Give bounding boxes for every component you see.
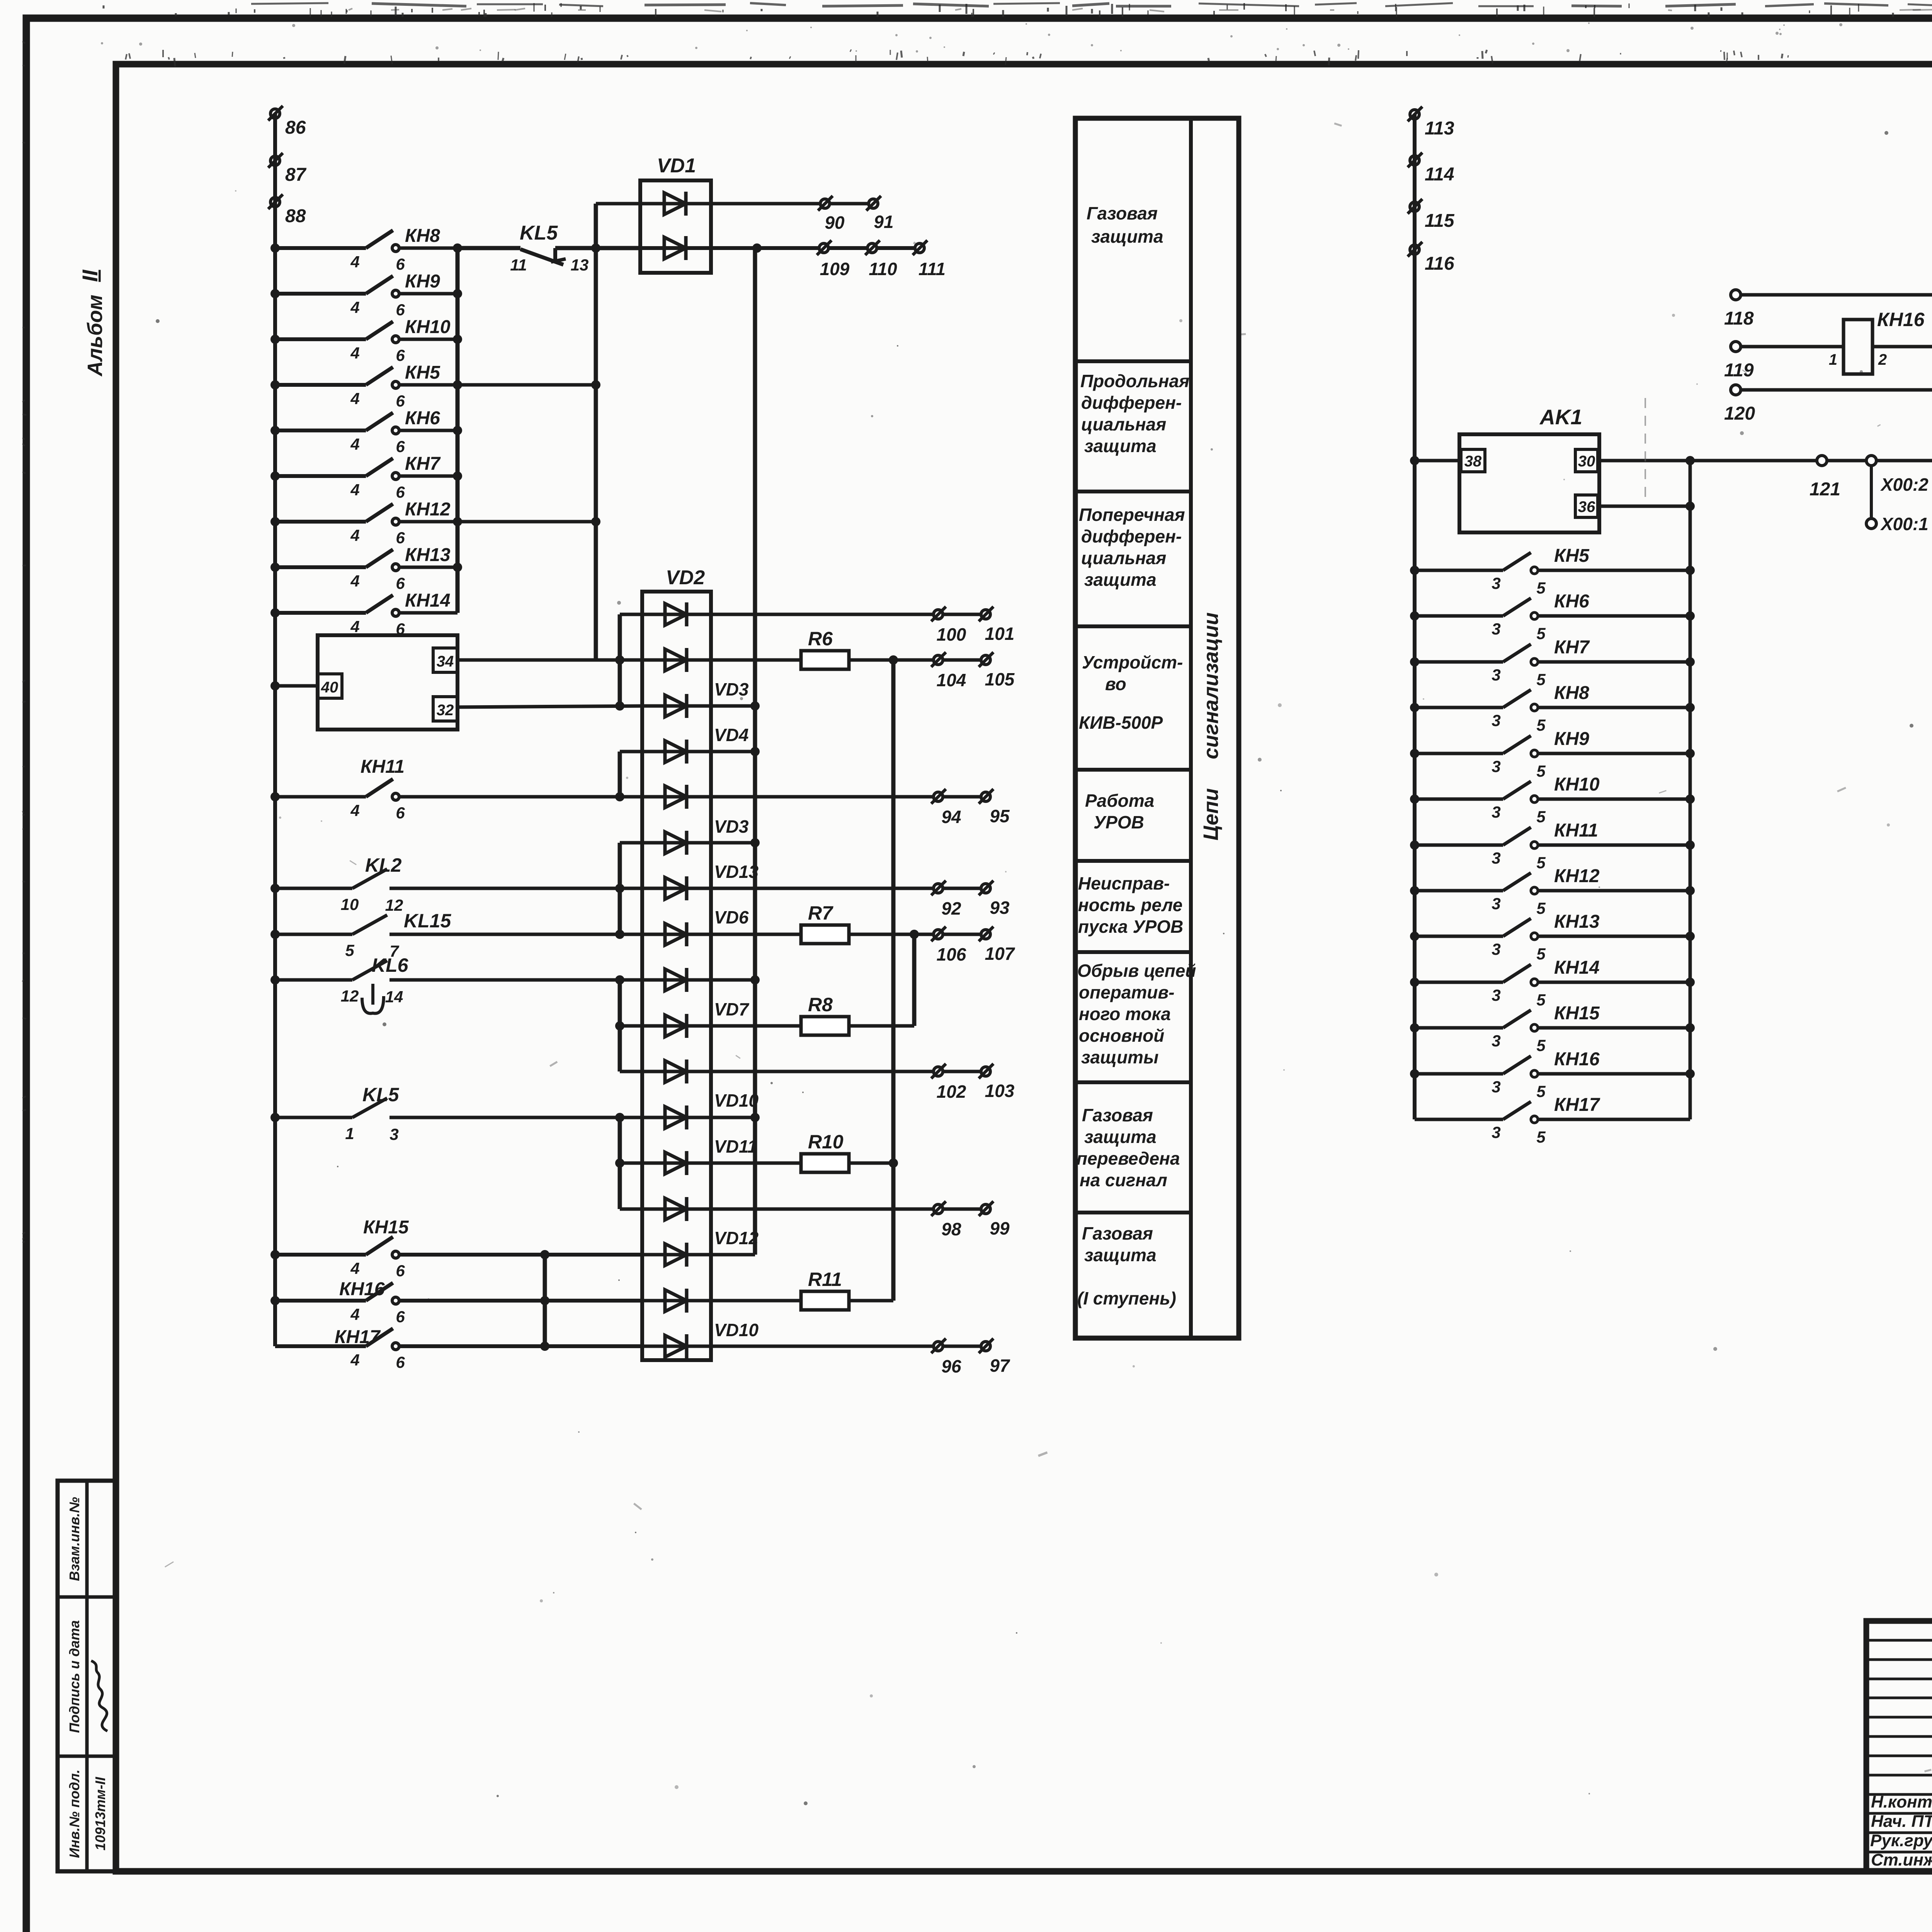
svg-text:38: 38 (1464, 453, 1482, 470)
svg-text:96: 96 (941, 1356, 961, 1376)
svg-text:88: 88 (285, 206, 306, 226)
svg-text:10913тм-II: 10913тм-II (92, 1777, 108, 1850)
svg-text:3: 3 (1492, 940, 1500, 958)
svg-text:114: 114 (1425, 164, 1454, 185)
svg-text:KL5: KL5 (520, 222, 558, 244)
svg-text:5: 5 (1536, 716, 1546, 734)
svg-text:6: 6 (396, 483, 405, 501)
svg-text:1: 1 (1829, 351, 1837, 368)
svg-text:3: 3 (1492, 711, 1500, 730)
svg-text:4: 4 (350, 1305, 359, 1323)
svg-text:KL2: KL2 (365, 854, 402, 876)
svg-text:KL6: KL6 (372, 954, 409, 976)
svg-text:Взам.инв.№: Взам.инв.№ (66, 1497, 82, 1581)
svg-text:Н.контр.: Н.контр. (1871, 1793, 1932, 1811)
svg-text:3: 3 (1492, 803, 1500, 821)
svg-text:4: 4 (350, 389, 359, 408)
svg-text:6: 6 (396, 346, 405, 364)
svg-text:115: 115 (1425, 211, 1455, 231)
svg-text:VD7: VD7 (714, 999, 750, 1019)
svg-text:КН17: КН17 (1554, 1095, 1600, 1115)
svg-text:переведена: переведена (1077, 1148, 1180, 1168)
svg-text:KL5: KL5 (362, 1084, 400, 1105)
svg-text:VD10: VD10 (714, 1090, 759, 1111)
svg-text:3: 3 (1492, 574, 1500, 592)
svg-text:Инв.№ подл.: Инв.№ подл. (66, 1769, 82, 1858)
svg-text:4: 4 (350, 801, 359, 820)
svg-text:Неисправ-: Неисправ- (1078, 873, 1170, 893)
svg-text:КН11: КН11 (1554, 820, 1598, 841)
svg-text:5: 5 (1536, 1036, 1546, 1054)
svg-text:4: 4 (350, 617, 359, 636)
svg-text:103: 103 (985, 1081, 1015, 1101)
svg-text:4: 4 (350, 1259, 359, 1277)
svg-text:защита: защита (1084, 436, 1156, 456)
svg-text:3: 3 (1492, 1123, 1500, 1141)
svg-text:3: 3 (1492, 666, 1500, 684)
svg-text:VD13: VD13 (714, 862, 759, 882)
svg-text:КН5: КН5 (1554, 546, 1590, 566)
svg-text:105: 105 (985, 669, 1015, 689)
svg-text:3: 3 (1492, 1032, 1500, 1050)
svg-text:109: 109 (820, 259, 850, 279)
svg-text:5: 5 (1536, 899, 1546, 917)
svg-text:5: 5 (1536, 1128, 1546, 1146)
svg-text:106: 106 (937, 944, 966, 964)
svg-text:6: 6 (396, 1353, 405, 1371)
svg-text:Устройст-: Устройст- (1082, 652, 1183, 672)
svg-text:КН11: КН11 (361, 757, 405, 777)
svg-text:12: 12 (341, 987, 359, 1005)
svg-text:3: 3 (389, 1125, 398, 1143)
svg-text:30: 30 (1578, 453, 1595, 470)
svg-text:118: 118 (1724, 308, 1754, 329)
svg-text:VD1: VD1 (657, 155, 696, 177)
svg-text:во: во (1105, 674, 1126, 694)
svg-text:5: 5 (1536, 854, 1546, 872)
svg-text:КН6: КН6 (405, 408, 440, 429)
svg-text:R11: R11 (808, 1269, 842, 1290)
svg-text:КН14: КН14 (1554, 957, 1600, 978)
svg-text:10: 10 (341, 895, 359, 913)
svg-text:32: 32 (437, 702, 454, 719)
svg-text:КН7: КН7 (1554, 637, 1590, 658)
svg-text:11: 11 (510, 256, 527, 274)
svg-text:98: 98 (941, 1219, 961, 1239)
svg-text:104: 104 (937, 670, 966, 690)
svg-text:КН9: КН9 (1554, 729, 1589, 749)
svg-text:110: 110 (869, 259, 897, 279)
svg-text:Подпись и дата: Подпись и дата (66, 1620, 82, 1733)
svg-text:4: 4 (350, 344, 359, 362)
svg-text:KL15: KL15 (404, 910, 451, 932)
svg-text:121: 121 (1810, 479, 1840, 500)
svg-text:4: 4 (350, 526, 359, 544)
svg-text:VD4: VD4 (714, 725, 748, 745)
svg-text:99: 99 (990, 1218, 1010, 1238)
svg-text:5: 5 (1536, 945, 1546, 963)
svg-text:КН15: КН15 (1554, 1003, 1600, 1024)
svg-text:Цепи сигнализации: Цепи сигнализации (1199, 612, 1223, 841)
svg-text:КН13: КН13 (1554, 912, 1600, 932)
svg-text:36: 36 (1578, 498, 1595, 515)
svg-text:защита: защита (1084, 1245, 1156, 1265)
svg-text:защиты: защиты (1081, 1047, 1158, 1067)
svg-text:100: 100 (937, 624, 966, 645)
svg-text:3: 3 (1492, 620, 1500, 638)
svg-text:КН17: КН17 (335, 1327, 381, 1347)
svg-text:34: 34 (437, 653, 454, 670)
svg-text:R10: R10 (808, 1131, 844, 1153)
svg-text:УРОВ: УРОВ (1094, 812, 1144, 832)
svg-text:4: 4 (350, 253, 359, 271)
svg-text:40: 40 (321, 679, 338, 696)
svg-text:Нач. ПТП: Нач. ПТП (1871, 1812, 1932, 1831)
svg-text:4: 4 (350, 481, 359, 499)
svg-text:ность реле: ность реле (1078, 895, 1182, 915)
svg-text:VD10: VD10 (714, 1320, 759, 1340)
svg-text:86: 86 (285, 117, 306, 138)
svg-text:VD12: VD12 (714, 1228, 759, 1248)
svg-text:4: 4 (350, 298, 359, 316)
svg-text:Рук.груп: Рук.груп (1870, 1831, 1932, 1850)
svg-text:КН10: КН10 (1554, 774, 1600, 795)
svg-text:4: 4 (350, 572, 359, 590)
svg-text:Газовая: Газовая (1082, 1105, 1153, 1125)
svg-text:защита: защита (1084, 1127, 1156, 1147)
svg-text:6: 6 (396, 1262, 405, 1280)
svg-text:6: 6 (396, 255, 405, 273)
svg-text:5: 5 (1536, 579, 1546, 597)
svg-text:КН16: КН16 (339, 1279, 385, 1299)
svg-text:101: 101 (985, 624, 1015, 644)
svg-text:3: 3 (1492, 895, 1500, 913)
svg-text:102: 102 (937, 1082, 966, 1102)
svg-text:2: 2 (1878, 351, 1887, 368)
svg-text:циальная: циальная (1081, 548, 1166, 568)
svg-text:6: 6 (396, 529, 405, 547)
svg-text:КН6: КН6 (1554, 591, 1589, 612)
svg-text:пуска УРОВ: пуска УРОВ (1078, 917, 1183, 937)
svg-text:3: 3 (1492, 986, 1500, 1004)
svg-text:(I ступень): (I ступень) (1077, 1288, 1176, 1308)
svg-text:6: 6 (396, 804, 405, 822)
svg-text:5: 5 (1536, 991, 1546, 1009)
svg-text:4: 4 (350, 1351, 359, 1369)
svg-text:циальная: циальная (1081, 414, 1166, 434)
svg-text:КН14: КН14 (405, 590, 451, 611)
svg-text:90: 90 (825, 213, 845, 233)
svg-text:5: 5 (1536, 762, 1546, 780)
svg-text:3: 3 (1492, 849, 1500, 867)
svg-text:II: II (78, 269, 102, 282)
svg-text:X00:1: X00:1 (1880, 514, 1929, 534)
svg-text:Ст.инж.: Ст.инж. (1871, 1850, 1932, 1869)
svg-text:1: 1 (345, 1124, 354, 1143)
svg-text:3: 3 (1492, 1078, 1500, 1096)
svg-text:Альбом: Альбом (83, 294, 107, 377)
svg-text:основной: основной (1079, 1026, 1164, 1046)
svg-text:КИВ-500Р: КИВ-500Р (1079, 713, 1163, 733)
svg-text:5: 5 (345, 941, 354, 959)
svg-text:Работа: Работа (1085, 791, 1154, 811)
svg-text:на сигнал: на сигнал (1080, 1170, 1167, 1190)
svg-text:КН12: КН12 (405, 499, 451, 520)
svg-text:3: 3 (1492, 757, 1500, 776)
svg-text:116: 116 (1425, 253, 1454, 274)
svg-text:95: 95 (990, 806, 1010, 826)
svg-text:111: 111 (918, 259, 946, 279)
svg-text:VD2: VD2 (666, 566, 705, 589)
svg-text:защита: защита (1084, 570, 1156, 590)
svg-text:защита: защита (1091, 226, 1163, 247)
svg-text:6: 6 (396, 392, 405, 410)
svg-text:94: 94 (941, 807, 961, 827)
svg-text:12: 12 (385, 896, 403, 914)
svg-text:6: 6 (396, 301, 405, 319)
svg-text:5: 5 (1536, 670, 1546, 689)
svg-text:КН8: КН8 (405, 226, 440, 246)
svg-text:4: 4 (350, 435, 359, 453)
svg-text:КН13: КН13 (405, 545, 451, 565)
svg-text:R8: R8 (808, 994, 833, 1015)
svg-text:Обрыв цепей: Обрыв цепей (1077, 961, 1196, 981)
svg-text:ного тока: ного тока (1079, 1004, 1171, 1024)
svg-text:VD3: VD3 (714, 679, 749, 699)
svg-text:Продольная: Продольная (1080, 371, 1189, 391)
svg-text:Поперечная: Поперечная (1079, 505, 1185, 525)
svg-text:93: 93 (990, 898, 1010, 918)
svg-text:6: 6 (396, 574, 405, 592)
svg-text:14: 14 (385, 988, 403, 1006)
svg-text:КН8: КН8 (1554, 683, 1589, 703)
svg-text:13: 13 (571, 256, 589, 274)
svg-text:Газовая: Газовая (1082, 1223, 1153, 1243)
svg-text:дифферен-: дифферен- (1081, 526, 1182, 546)
svg-text:КН10: КН10 (405, 317, 451, 337)
svg-text:оператив-: оператив- (1079, 982, 1175, 1002)
svg-text:5: 5 (1536, 808, 1546, 826)
svg-text:R6: R6 (808, 628, 833, 650)
svg-text:119: 119 (1724, 360, 1754, 381)
svg-text:5: 5 (1536, 624, 1546, 643)
svg-text:R7: R7 (808, 902, 833, 924)
svg-text:120: 120 (1724, 403, 1755, 424)
svg-text:Газовая: Газовая (1087, 203, 1158, 223)
svg-text:КН7: КН7 (405, 454, 441, 474)
svg-text:87: 87 (285, 165, 307, 185)
svg-text:X00:2: X00:2 (1880, 474, 1929, 495)
svg-text:VD3: VD3 (714, 816, 749, 837)
svg-text:113: 113 (1425, 118, 1454, 139)
svg-text:КН16: КН16 (1554, 1049, 1600, 1070)
svg-text:КН16: КН16 (1877, 309, 1925, 330)
svg-text:КН5: КН5 (405, 362, 440, 383)
svg-text:97: 97 (990, 1355, 1010, 1376)
svg-text:6: 6 (396, 1308, 405, 1326)
svg-text:VD6: VD6 (714, 907, 749, 927)
svg-text:5: 5 (1536, 1082, 1546, 1100)
svg-text:КН12: КН12 (1554, 866, 1600, 886)
svg-text:КН9: КН9 (405, 271, 440, 292)
svg-text:107: 107 (985, 944, 1015, 964)
svg-text:6: 6 (396, 437, 405, 456)
svg-text:AK1: AK1 (1539, 405, 1582, 429)
svg-text:91: 91 (874, 212, 893, 232)
svg-text:КН15: КН15 (363, 1217, 409, 1238)
svg-text:дифферен-: дифферен- (1081, 393, 1182, 413)
svg-text:92: 92 (941, 898, 961, 918)
svg-text:VD11: VD11 (714, 1136, 757, 1156)
